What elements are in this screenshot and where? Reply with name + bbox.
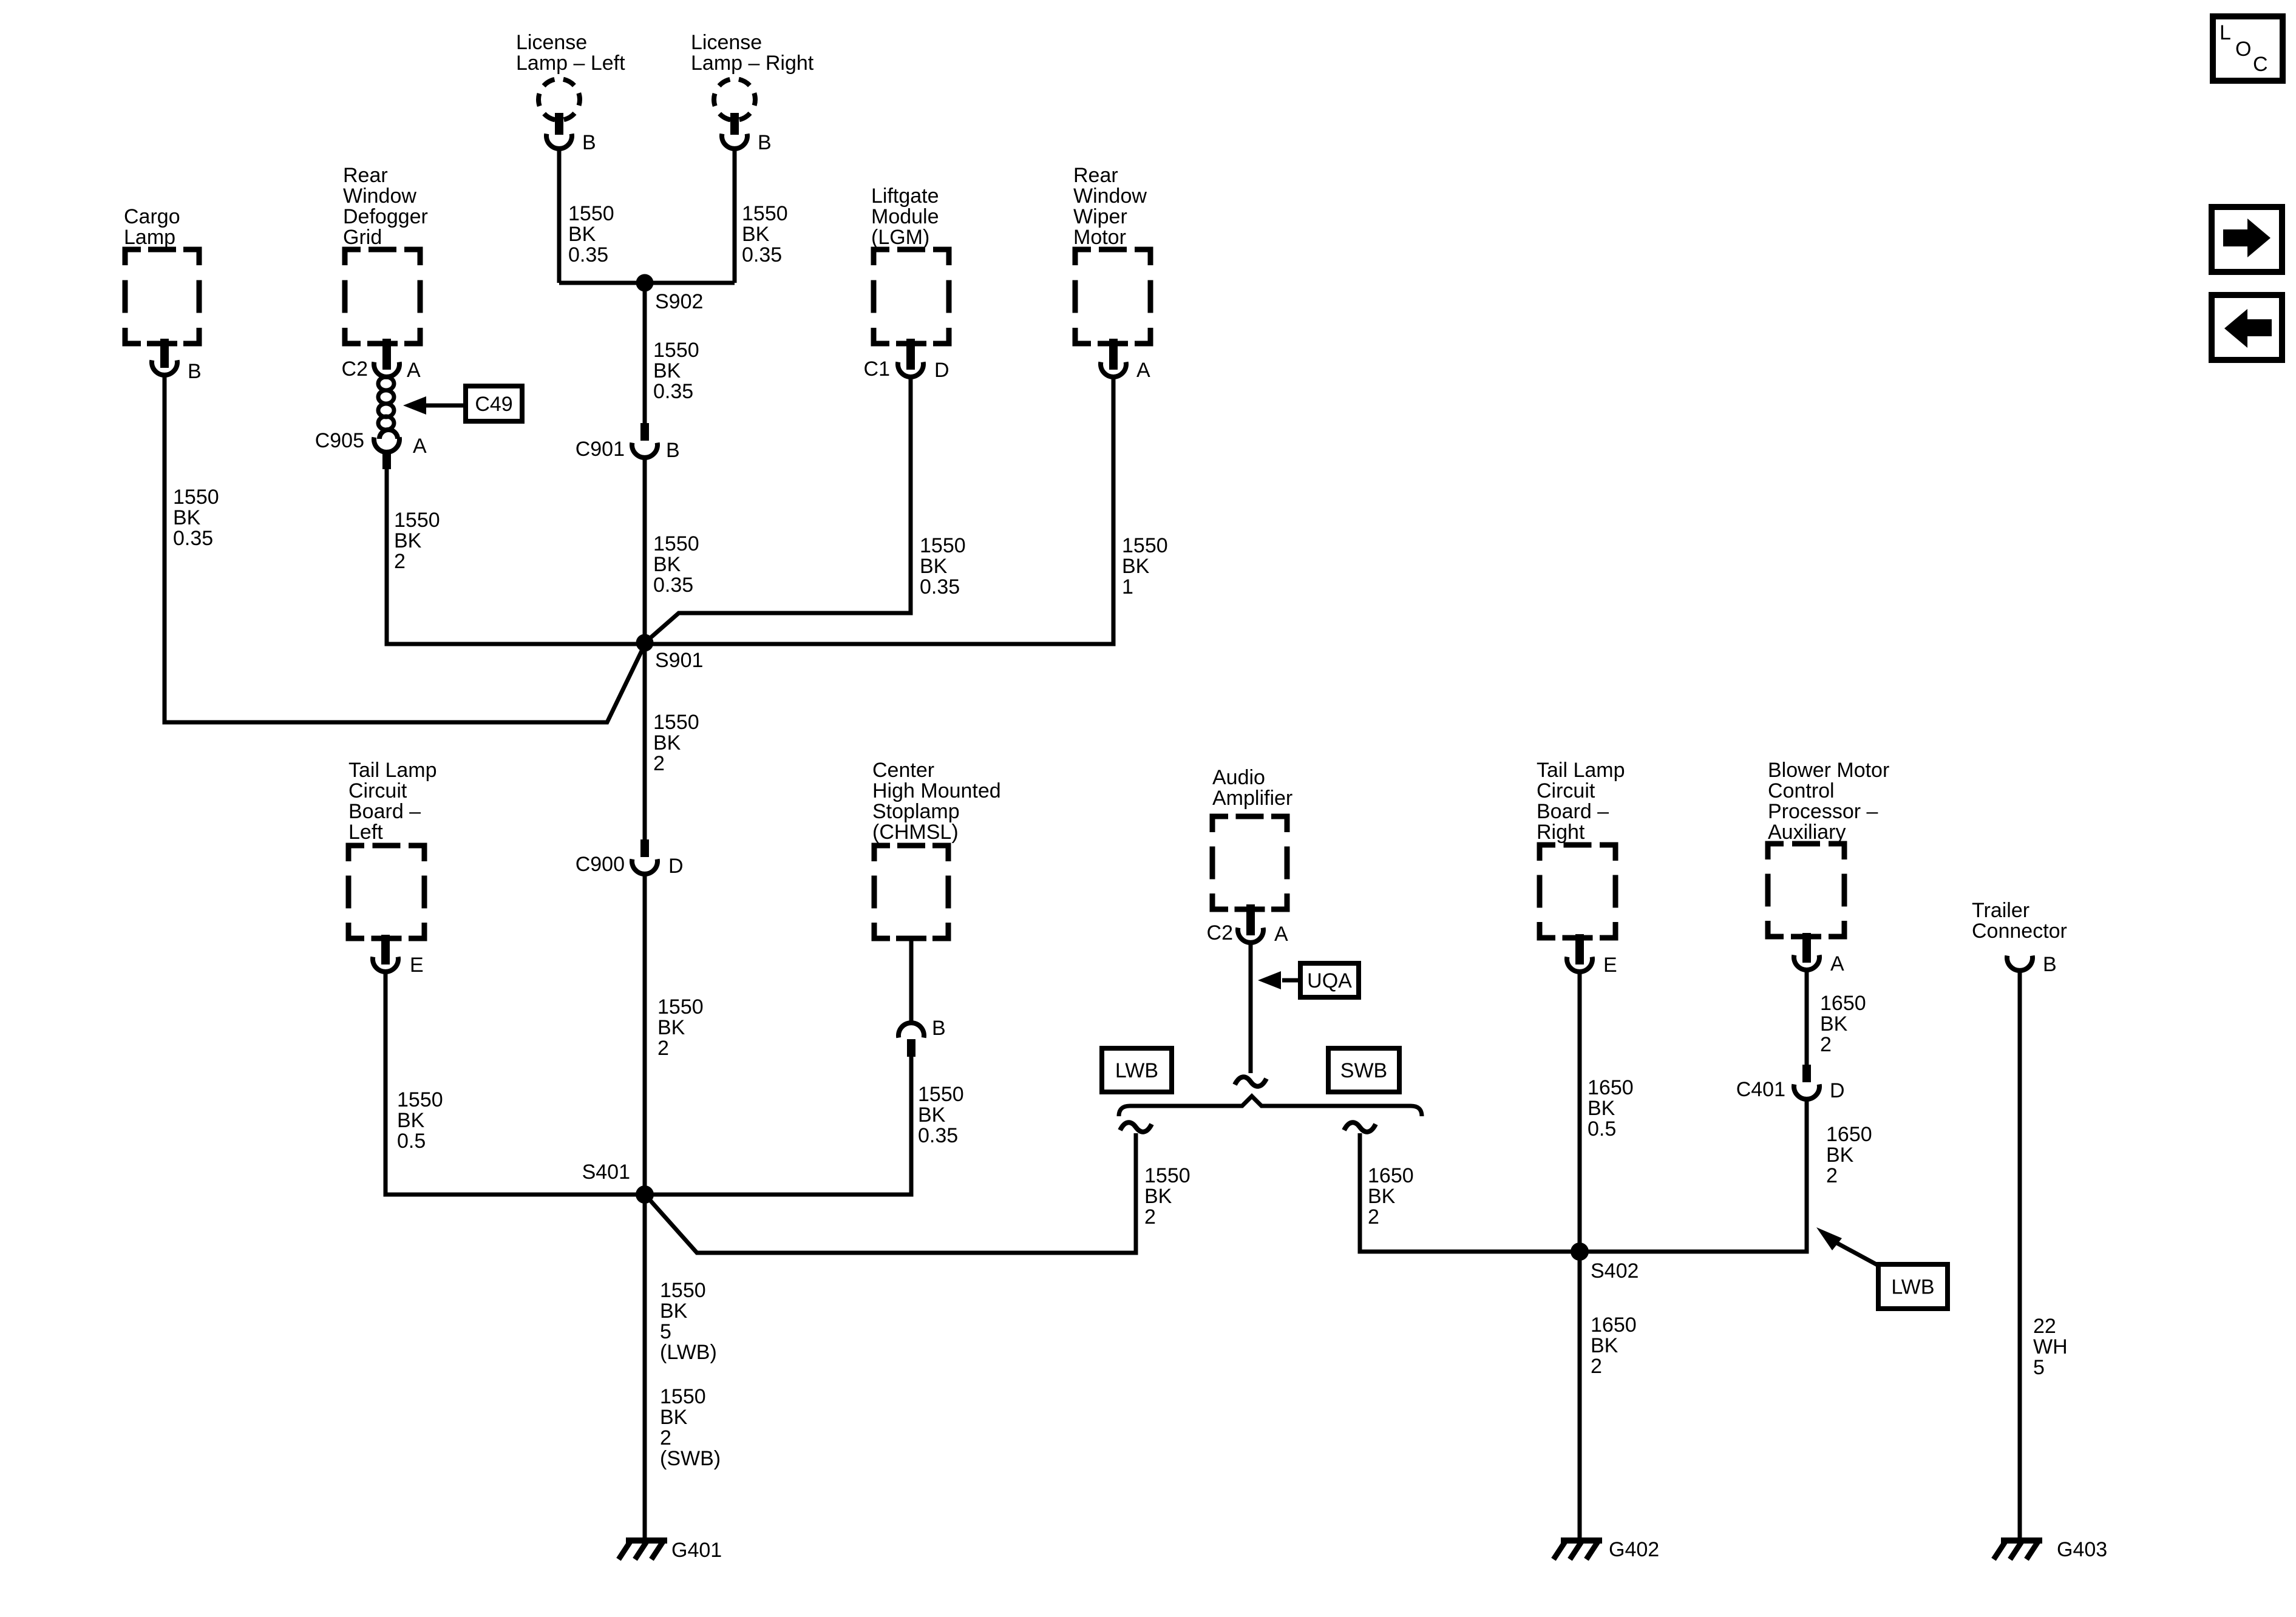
wire from Audio Amplifier C2 to harness brace [1249, 943, 1253, 1073]
svg-text:0.5: 0.5 [1588, 1117, 1616, 1141]
svg-text:(LGM): (LGM) [871, 226, 929, 249]
wire 1550 BK 2 from C905 to S901 [387, 469, 645, 644]
wire 1650 BK 2 from brace SWB to S402 [1360, 1133, 1580, 1252]
svg-text:C2: C2 [1207, 921, 1233, 944]
svg-text:BK: BK [173, 506, 201, 529]
svg-text:Module: Module [871, 205, 939, 228]
svg-text:2: 2 [1820, 1033, 1832, 1056]
svg-text:D: D [668, 855, 684, 878]
junction splice S401 [582, 1161, 654, 1204]
svg-text:1550: 1550 [397, 1088, 443, 1111]
svg-text:L: L [2220, 21, 2231, 44]
wire 1550 BK 5 (LWB) / 1550 BK 2 (SWB) from S401 to G401 [643, 1195, 647, 1541]
wire label 1550 BK 2 (LWB branch) [1144, 1164, 1190, 1229]
svg-text:1550: 1550 [173, 486, 219, 509]
svg-text:2: 2 [657, 1037, 669, 1060]
svg-text:BK: BK [568, 223, 596, 246]
svg-text:G402: G402 [1609, 1538, 1659, 1561]
svg-text:S401: S401 [582, 1161, 630, 1184]
component Cargo Lamp (dashed box) [124, 205, 199, 344]
svg-text:Stoplamp: Stoplamp [872, 800, 960, 823]
wire label 1550 BK 0.35 (cargo lamp wire) [173, 486, 219, 550]
wire label 1550 BK 0.35 (license left wire) [568, 202, 614, 266]
wire break below brace right [1344, 1122, 1376, 1131]
svg-text:Audio: Audio [1212, 766, 1265, 789]
wire label 1550 BK 0.35 (LGM wire) [920, 534, 966, 598]
wire label 1550 BK 0.35 (C901 to S901) [653, 532, 699, 597]
wire label 1650 BK 0.5 (tail lamp right wire) [1588, 1076, 1634, 1141]
svg-text:Connector: Connector [1972, 920, 2067, 943]
component Audio Amplifier (dashed box) [1212, 766, 1292, 909]
component Blower Motor Control Processor - Auxiliary (dashed box) [1768, 759, 1889, 937]
connector pin E (Tail Lamp CB Right) [1567, 934, 1617, 977]
callout box C49 with arrow to coil [403, 386, 522, 421]
svg-text:BK: BK [397, 1109, 425, 1132]
svg-text:LWB: LWB [1115, 1059, 1158, 1082]
component Rear Window Wiper Motor (dashed box) [1073, 164, 1150, 344]
svg-text:Left: Left [348, 821, 383, 844]
wire label 1550 BK 0.35 (CHMSL wire) [918, 1083, 964, 1147]
svg-text:E: E [410, 954, 424, 977]
wire 1550 BK 2 from S901 to C900 [643, 643, 647, 841]
svg-text:22: 22 [2033, 1315, 2056, 1338]
svg-text:Circuit: Circuit [348, 779, 407, 802]
component Trailer Connector label [1972, 899, 2067, 943]
svg-text:A: A [413, 435, 427, 458]
svg-text:C1: C1 [864, 358, 890, 381]
svg-text:Lamp – Left: Lamp – Left [516, 52, 625, 75]
svg-text:2: 2 [660, 1426, 671, 1449]
svg-text:BK: BK [394, 529, 422, 552]
svg-text:S402: S402 [1591, 1259, 1639, 1283]
connector pin E (Tail Lamp CB Left) [373, 935, 424, 977]
svg-text:BK: BK [1144, 1185, 1172, 1208]
connector C2 pin A (Audio Amplifier) [1207, 904, 1288, 946]
component License Lamp - Right (dashed bulb circle) [691, 31, 814, 120]
svg-text:2: 2 [1368, 1205, 1379, 1229]
svg-text:2: 2 [1144, 1205, 1156, 1229]
wire label 1550 BK 2 (S901 to C900) [653, 711, 699, 775]
svg-text:(SWB): (SWB) [660, 1447, 721, 1470]
svg-text:BK: BK [742, 223, 770, 246]
svg-text:A: A [1274, 923, 1288, 946]
svg-text:1550: 1550 [742, 202, 788, 225]
svg-text:Lamp: Lamp [124, 226, 175, 249]
wire 1550 BK 0.35 from C901 to S901 [643, 457, 647, 643]
svg-text:Liftgate: Liftgate [871, 185, 939, 208]
wire 1650 BK 2 from Blower A to C401 [1805, 971, 1809, 1066]
svg-text:SWB: SWB [1340, 1059, 1387, 1082]
connector pin B (CHMSL, inverted cup) [898, 1017, 946, 1057]
wire label 1550 BK 0.35 (license right wire) [742, 202, 788, 266]
svg-text:BK: BK [660, 1406, 688, 1429]
svg-text:Window: Window [343, 185, 416, 208]
legend box arrow left [2212, 295, 2282, 360]
inline connector C401 pin D [1736, 1065, 1845, 1102]
svg-text:Trailer: Trailer [1972, 899, 2029, 922]
component Liftgate Module LGM (dashed box) [871, 185, 949, 344]
svg-text:G403: G403 [2057, 1538, 2107, 1561]
wire 1550 BK 0.35 from LGM to S901 [645, 378, 911, 643]
wire 1650 BK 0.5 from Tail Lamp CB Right to S402 [1578, 972, 1582, 1252]
svg-text:BK: BK [657, 1016, 685, 1039]
inline connector C901 pin B [576, 423, 680, 462]
svg-text:2: 2 [1826, 1164, 1838, 1187]
legend box LOC [2213, 16, 2283, 81]
wire break below brace left [1120, 1122, 1152, 1131]
wire 1650 BK 2 from C401 to S402 [1580, 1099, 1807, 1252]
svg-text:High Mounted: High Mounted [872, 779, 1001, 802]
wire label 1550 BK 2 (SWB) [660, 1385, 721, 1470]
wire 1550 BK 2 from C900 to S401 [643, 873, 647, 1195]
svg-text:2: 2 [394, 550, 406, 573]
svg-text:1550: 1550 [657, 995, 704, 1019]
svg-text:G401: G401 [671, 1539, 722, 1562]
component Center High Mounted Stoplamp CHMSL (dashed box) [872, 759, 1001, 938]
wire 1550 BK 0.35 from License Lamp Left to S902 [557, 149, 562, 283]
wire 1550 BK 0.5 from Tail Lamp CB Left to S401 [385, 972, 645, 1195]
svg-text:License: License [691, 31, 762, 54]
svg-text:O: O [2235, 38, 2251, 61]
svg-text:Tail Lamp: Tail Lamp [348, 759, 437, 782]
svg-text:BK: BK [918, 1103, 946, 1127]
callout box LWB (brace left) [1102, 1048, 1172, 1092]
svg-text:1550: 1550 [1122, 534, 1168, 557]
svg-text:Wiper: Wiper [1073, 205, 1127, 228]
svg-text:BK: BK [920, 555, 948, 578]
wire break at brace apex [1235, 1077, 1266, 1086]
svg-text:0.35: 0.35 [653, 574, 693, 597]
svg-text:B: B [758, 131, 772, 154]
wire joining license lamps at S902 [559, 281, 735, 285]
svg-text:Rear: Rear [343, 164, 388, 187]
svg-text:1650: 1650 [1588, 1076, 1634, 1099]
svg-text:0.35: 0.35 [918, 1124, 958, 1147]
svg-text:1550: 1550 [653, 339, 699, 362]
svg-text:License: License [516, 31, 587, 54]
svg-text:Rear: Rear [1073, 164, 1118, 187]
svg-text:BK: BK [660, 1300, 688, 1323]
svg-text:Board –: Board – [348, 800, 421, 823]
wire from CHMSL to connector B [909, 938, 914, 1023]
wire 1550 BK 0.35 from Cargo Lamp B to S901 [165, 375, 645, 722]
svg-text:Center: Center [872, 759, 934, 782]
svg-text:S902: S902 [655, 290, 703, 313]
wire label 1550 BK 0.5 (tail lamp left wire) [397, 1088, 443, 1153]
svg-text:1550: 1550 [1144, 1164, 1190, 1187]
connector pin B (License Lamp - Left) [546, 113, 596, 154]
svg-text:Processor –: Processor – [1768, 800, 1878, 823]
connector pin A (Blower Motor Control Processor) [1794, 933, 1844, 975]
svg-text:D: D [934, 359, 949, 382]
svg-text:B: B [582, 131, 596, 154]
svg-text:BK: BK [1591, 1334, 1618, 1357]
svg-text:1550: 1550 [394, 509, 440, 532]
inline connector C905 pin A [315, 429, 427, 469]
wire 1550 BK 2 from brace LWB to S401 [647, 1133, 1136, 1253]
component License Lamp - Left (dashed bulb circle) [516, 31, 625, 120]
svg-text:B: B [188, 360, 202, 383]
svg-text:Auxiliary: Auxiliary [1768, 821, 1846, 844]
connector pin B (License Lamp - Right) [722, 113, 772, 154]
svg-text:1: 1 [1122, 575, 1133, 598]
svg-text:BK: BK [1826, 1144, 1854, 1167]
wire 1550 BK 0.35 from License Lamp Right to S902 [733, 149, 737, 283]
wire label 1550 BK 2 (C900 to S401) [657, 995, 704, 1060]
ground G403 [1994, 1538, 2107, 1561]
svg-text:5: 5 [2033, 1356, 2045, 1379]
wire label 1550 BK 0.35 (S902 to C901) [653, 339, 699, 403]
svg-text:1550: 1550 [660, 1385, 706, 1408]
svg-text:C49: C49 [475, 393, 512, 416]
wire label 22 WH 5 (trailer wire) [2033, 1315, 2068, 1379]
svg-text:LWB: LWB [1891, 1276, 1934, 1299]
svg-text:1550: 1550 [653, 711, 699, 734]
wire 1650 BK 2 from S402 to G402 [1578, 1252, 1582, 1541]
svg-text:1550: 1550 [568, 202, 614, 225]
svg-text:UQA: UQA [1307, 969, 1352, 992]
wire 22 WH 5 from Trailer Connector to G403 [2018, 971, 2022, 1541]
svg-text:C2: C2 [342, 358, 368, 381]
svg-text:A: A [1136, 359, 1150, 382]
svg-text:Window: Window [1073, 185, 1147, 208]
callout box SWB (brace right) [1328, 1048, 1399, 1092]
svg-text:B: B [932, 1017, 946, 1040]
svg-text:E: E [1603, 954, 1617, 977]
svg-text:S901: S901 [655, 649, 703, 672]
ground G401 [619, 1539, 722, 1562]
svg-text:0.35: 0.35 [920, 575, 960, 598]
wire 1550 BK 0.35 from S902 to C901 [643, 283, 647, 424]
svg-text:1550: 1550 [920, 534, 966, 557]
svg-text:(LWB): (LWB) [660, 1341, 717, 1364]
svg-text:Board –: Board – [1537, 800, 1609, 823]
svg-text:C905: C905 [315, 429, 364, 452]
connector pin B (Trailer Connector) [2007, 953, 2057, 976]
svg-text:0.35: 0.35 [742, 243, 782, 266]
junction splice S402 [1571, 1242, 1639, 1283]
svg-text:0.35: 0.35 [173, 527, 213, 550]
svg-text:BK: BK [653, 731, 681, 754]
svg-text:C901: C901 [576, 438, 625, 461]
svg-text:BK: BK [653, 553, 681, 576]
connector C1 pin D (Liftgate Module) [864, 339, 949, 382]
svg-text:5: 5 [660, 1320, 671, 1343]
svg-text:1650: 1650 [1820, 992, 1866, 1015]
svg-text:Blower Motor: Blower Motor [1768, 759, 1889, 782]
svg-text:0.35: 0.35 [568, 243, 608, 266]
svg-text:Motor: Motor [1073, 226, 1126, 249]
wire label 1650 BK 2 (blower upper wire) [1820, 992, 1866, 1056]
component Tail Lamp Circuit Board - Left (dashed box) [348, 759, 437, 938]
connector pin A (Wiper Motor) [1101, 339, 1150, 382]
svg-text:C900: C900 [576, 853, 625, 876]
junction splice S902 [636, 274, 704, 314]
svg-text:1550: 1550 [653, 532, 699, 555]
svg-text:Control: Control [1768, 779, 1835, 802]
wire label 1650 BK 2 (blower lower wire) [1826, 1123, 1872, 1187]
svg-text:Lamp – Right: Lamp – Right [691, 52, 814, 75]
callout box LWB with arrow to blower wire [1816, 1227, 1948, 1309]
svg-text:2: 2 [1591, 1355, 1602, 1378]
defogger grid coil element [378, 377, 394, 430]
svg-text:Right: Right [1537, 821, 1585, 844]
wire label 1650 BK 2 (S402 to G402) [1591, 1314, 1637, 1378]
svg-text:Defogger: Defogger [343, 205, 428, 228]
wire 1550 BK 1 from Wiper Motor to S901 [645, 378, 1113, 644]
svg-text:B: B [2043, 953, 2057, 976]
svg-text:C: C [2253, 53, 2268, 76]
svg-text:BK: BK [1368, 1185, 1396, 1208]
component Rear Window Defogger Grid (dashed box) [343, 164, 428, 344]
svg-text:0.35: 0.35 [653, 380, 693, 403]
svg-text:BK: BK [1588, 1097, 1615, 1120]
svg-text:1650: 1650 [1591, 1314, 1637, 1337]
callout box UQA with arrow to audio amp wire [1258, 963, 1359, 997]
harness option brace LWB/SWB [1119, 1096, 1422, 1116]
svg-text:WH: WH [2033, 1335, 2068, 1358]
wire 1550 BK 0.35 from CHMSL B to S401 [645, 1057, 911, 1195]
svg-text:1650: 1650 [1826, 1123, 1872, 1146]
ground G402 [1554, 1538, 1659, 1561]
component Tail Lamp Circuit Board - Right (dashed box) [1537, 759, 1625, 938]
svg-text:(CHMSL): (CHMSL) [872, 821, 959, 844]
svg-text:1550: 1550 [660, 1279, 706, 1302]
svg-text:BK: BK [1122, 555, 1150, 578]
svg-text:Amplifier: Amplifier [1212, 787, 1292, 810]
svg-text:1650: 1650 [1368, 1164, 1414, 1187]
wire label 1550 BK 5 (LWB) [660, 1279, 717, 1364]
svg-text:Tail Lamp: Tail Lamp [1537, 759, 1625, 782]
legend box arrow right [2212, 207, 2282, 272]
svg-text:Grid: Grid [343, 226, 382, 249]
svg-text:2: 2 [653, 752, 665, 775]
svg-text:A: A [407, 359, 421, 382]
svg-text:Circuit: Circuit [1537, 779, 1595, 802]
svg-text:A: A [1830, 952, 1844, 975]
connector pin B (Cargo Lamp) [152, 339, 202, 383]
svg-text:Cargo: Cargo [124, 205, 180, 228]
svg-text:BK: BK [1820, 1012, 1848, 1036]
wire label 1550 BK 1 (wiper wire) [1122, 534, 1168, 598]
connector C2 pin A (Defogger Grid) [342, 339, 421, 382]
svg-text:0.5: 0.5 [397, 1130, 426, 1153]
svg-text:B: B [666, 439, 680, 462]
svg-text:BK: BK [653, 359, 681, 382]
junction splice S901 [636, 634, 704, 673]
svg-text:D: D [1830, 1079, 1845, 1102]
svg-text:C401: C401 [1736, 1078, 1785, 1101]
svg-text:1550: 1550 [918, 1083, 964, 1106]
wire label 1550 BK 2 (defogger wire) [394, 509, 440, 573]
wire label 1650 BK 2 (SWB branch) [1368, 1164, 1414, 1229]
inline connector C900 pin D [576, 839, 684, 878]
